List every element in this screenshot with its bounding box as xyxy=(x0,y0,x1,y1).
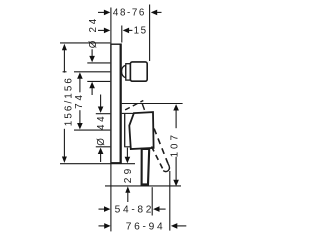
svg-text:76-94: 76-94 xyxy=(126,221,166,232)
lever bar (hanging down) xyxy=(142,149,150,185)
dimension 29 (plate bottom to lever end) xyxy=(125,148,131,202)
dimension 48-76 (top row) xyxy=(98,5,162,62)
dimension 107 (right side, handle top to lever end) xyxy=(105,104,183,187)
svg-text:74: 74 xyxy=(74,92,85,109)
knob dome (transition to plate) xyxy=(122,65,126,77)
svg-text:29: 29 xyxy=(123,165,134,183)
escutcheon wall plate xyxy=(111,44,121,163)
dimension 74 (knob axis to lever axis) xyxy=(63,72,111,130)
lever rosette edge xyxy=(124,114,126,147)
dimension 54-82 (bottom row 1) xyxy=(99,187,166,215)
dimension Ø44 (lever rosette diameter) xyxy=(96,95,134,163)
svg-text:48-76: 48-76 xyxy=(113,8,146,19)
dimension 15 (second row) xyxy=(98,26,132,43)
knob ring xyxy=(126,64,131,80)
svg-text:15: 15 xyxy=(134,26,148,37)
svg-text:54-82: 54-82 xyxy=(115,205,155,216)
dashed handle lowered position xyxy=(152,129,170,172)
shut-off knob body xyxy=(130,62,147,81)
dimension Ø24 (knob diameter, vertical at x≈92) xyxy=(87,49,110,95)
svg-text:107: 107 xyxy=(169,132,180,157)
svg-text:Ø 44: Ø 44 xyxy=(96,114,107,146)
lever handle body xyxy=(129,112,153,149)
wire: wall face extension line (left edge of plate, full height) xyxy=(110,8,112,44)
dimension 76-94 (bottom row 2) xyxy=(99,171,187,231)
dimension 156/156 (overall plate height, far left) xyxy=(60,43,135,164)
wire: plate front face thick edge xyxy=(119,44,121,163)
dashed handle raised position xyxy=(123,101,145,112)
svg-text:156/156: 156/156 xyxy=(64,76,75,126)
